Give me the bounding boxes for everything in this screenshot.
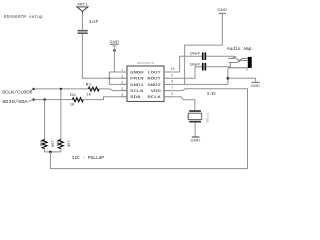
wire crystal to ground [194, 123, 196, 137]
svg-text:10K: 10K [66, 140, 70, 147]
svg-text:RCLK: RCLK [147, 96, 161, 100]
wire ROUT to C2 [164, 67, 202, 79]
wire C2 to jack ring [206, 62, 230, 66]
svg-text:6: 6 [171, 92, 173, 96]
svg-text:GND0: GND0 [130, 71, 144, 75]
svg-text:RDA5807M: RDA5807M [137, 61, 154, 65]
svg-text:1K: 1K [70, 104, 75, 108]
svg-text:GND1: GND1 [130, 84, 144, 88]
node pullup junction [49, 151, 52, 154]
svg-text:SCLK/CLOCK: SCLK/CLOCK [2, 89, 33, 95]
resistor R1 1K [86, 84, 99, 98]
ground GND (top middle) [109, 41, 119, 47]
svg-text:I2C - PULLUP: I2C - PULLUP [72, 156, 105, 161]
svg-text:LOUT: LOUT [147, 71, 161, 75]
svg-text:9: 9 [171, 73, 173, 77]
wire SDA line [34, 99, 73, 101]
ground GND (top right) [217, 9, 228, 14]
crystal X1 32768Hz [186, 110, 208, 123]
node SCLK/R4 junction [60, 88, 62, 90]
svg-text:5: 5 [121, 93, 123, 97]
svg-text:GND: GND [190, 139, 200, 143]
junction dot [113, 49, 116, 52]
capacitor C1 10uF [190, 52, 207, 60]
sleeve contact [228, 67, 248, 69]
wire LOUT to C1 [164, 56, 202, 72]
wire top-right GND to GND2 net [185, 14, 223, 84]
svg-text:10uF: 10uF [190, 53, 201, 57]
wire antenna to capacitor [81, 14, 83, 31]
wire GND to pin1 GND0 [114, 47, 127, 72]
ring contact [229, 61, 248, 63]
connector J1 audio jack [228, 57, 252, 73]
resistor R2 1K [70, 94, 84, 108]
svg-text:1K: 1K [86, 93, 91, 97]
capacitor 1nF [78, 19, 99, 34]
wire SCLK line [34, 88, 89, 90]
svg-text:GND: GND [217, 9, 228, 13]
svg-text:J1: J1 [245, 69, 249, 73]
wire RCLK pin6 to crystal [164, 97, 195, 110]
svg-text:SDIO/SDA: SDIO/SDA [2, 99, 28, 105]
svg-text:8: 8 [171, 80, 173, 84]
pin stubs left [121, 71, 127, 73]
wire GND branch to pin3 GND1 [108, 77, 110, 79]
wire capacitor to FMIN [82, 34, 127, 78]
svg-text:32768K: 32768K [205, 113, 208, 124]
wire 3.3V rail (pullups to VDD) [50, 89, 247, 169]
pin stubs right [164, 71, 170, 73]
svg-text:GND: GND [251, 85, 260, 89]
svg-text:7: 7 [171, 86, 173, 90]
svg-text:4: 4 [121, 87, 123, 91]
svg-text:GND2: GND2 [147, 84, 161, 88]
ground GND (bottom right) [251, 82, 260, 89]
svg-text:RDA5807M setup: RDA5807M setup [4, 14, 43, 20]
svg-text:FMIN: FMIN [130, 78, 144, 82]
svg-text:1: 1 [121, 68, 123, 72]
wire junction to ground (bottom right) [228, 78, 256, 82]
wire R1 to pin4 SCLK [99, 89, 127, 91]
svg-text:VDD: VDD [151, 90, 162, 94]
wire label leader [30, 89, 34, 91]
svg-text:Audio Amp.: Audio Amp. [227, 47, 254, 52]
wire C1 to jack tip [206, 56, 233, 58]
wire label leader [28, 100, 34, 102]
resistor R3 10K (vertical) [38, 100, 53, 152]
svg-text:3: 3 [121, 81, 123, 85]
resistor R4 10K (vertical) [55, 89, 70, 152]
svg-text:1nF: 1nF [89, 19, 99, 25]
svg-text:SDA: SDA [130, 96, 141, 100]
svg-text:10K: 10K [49, 140, 53, 147]
wire GND2 pin8 to jack sleeve [164, 68, 228, 85]
svg-text:3.3V: 3.3V [207, 92, 216, 97]
wire R2 to pin5 SDA [83, 97, 127, 100]
tip contact [229, 57, 248, 61]
svg-text:ROUT: ROUT [147, 78, 161, 82]
node SCLK junction [33, 88, 35, 90]
svg-text:SCLK: SCLK [130, 90, 144, 94]
chip U1 RDA5807M [121, 61, 175, 101]
node SDA/R3 junction [43, 98, 45, 100]
antenna ANT1 [77, 4, 89, 14]
wire pullup join bar [45, 151, 61, 153]
capacitor C2 10uF [190, 63, 207, 71]
svg-text:2: 2 [121, 74, 123, 78]
ground GND (crystal) [190, 136, 200, 143]
svg-text:10uF: 10uF [190, 64, 201, 68]
node GND junction at jack [227, 77, 230, 80]
node SDA junction [33, 98, 35, 100]
svg-text:10: 10 [171, 67, 175, 71]
